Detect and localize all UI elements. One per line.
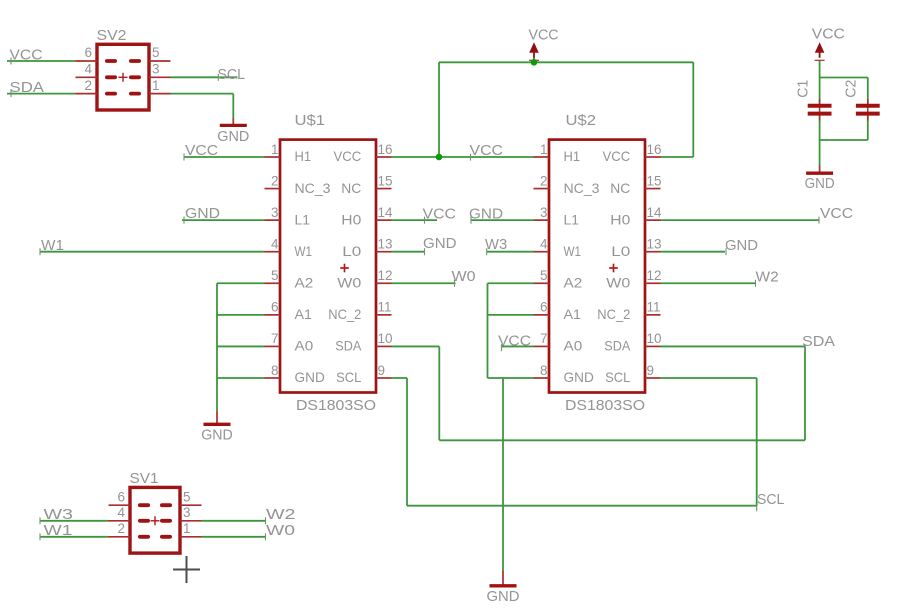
svg-text:U$1: U$1	[295, 112, 326, 129]
svg-text:H1: H1	[295, 148, 312, 164]
svg-text:1: 1	[540, 142, 548, 157]
svg-text:GND: GND	[201, 426, 233, 443]
svg-text:16: 16	[378, 142, 393, 157]
svg-text:2: 2	[117, 521, 125, 536]
svg-text:VCC: VCC	[470, 142, 504, 159]
svg-text:10: 10	[378, 331, 393, 346]
svg-text:SDA: SDA	[802, 333, 835, 350]
svg-text:L1: L1	[295, 211, 311, 227]
svg-text:L1: L1	[564, 211, 580, 227]
svg-text:GND: GND	[487, 588, 520, 605]
svg-text:A0: A0	[295, 338, 314, 354]
svg-text:2: 2	[271, 173, 279, 188]
svg-text:6: 6	[84, 45, 92, 60]
svg-text:A1: A1	[295, 306, 313, 322]
svg-text:10: 10	[647, 331, 662, 346]
svg-text:8: 8	[540, 363, 548, 378]
svg-text:3: 3	[152, 62, 160, 77]
svg-text:H0: H0	[610, 211, 630, 227]
svg-text:GND: GND	[725, 237, 758, 254]
svg-text:6: 6	[117, 489, 125, 504]
svg-text:NC: NC	[610, 180, 630, 196]
svg-text:W1: W1	[41, 237, 64, 254]
svg-text:VCC: VCC	[820, 205, 853, 222]
svg-text:NC_2: NC_2	[328, 306, 361, 322]
svg-text:3: 3	[271, 205, 279, 220]
svg-text:U$2: U$2	[566, 112, 597, 129]
svg-text:5: 5	[271, 268, 279, 283]
svg-text:A2: A2	[295, 274, 314, 290]
svg-text:DS1803SO: DS1803SO	[296, 397, 376, 414]
svg-text:8: 8	[271, 363, 279, 378]
svg-text:W1: W1	[564, 243, 582, 259]
svg-text:GND: GND	[295, 369, 325, 385]
svg-text:SDA: SDA	[335, 338, 362, 354]
svg-text:15: 15	[378, 173, 393, 188]
svg-text:5: 5	[540, 268, 548, 283]
svg-text:9: 9	[647, 363, 655, 378]
svg-text:11: 11	[647, 300, 661, 315]
svg-text:7: 7	[271, 331, 279, 346]
svg-text:9: 9	[378, 363, 386, 378]
svg-text:4: 4	[540, 237, 548, 252]
svg-text:C2: C2	[843, 80, 860, 98]
svg-text:W2: W2	[266, 506, 296, 523]
svg-text:NC_3: NC_3	[564, 180, 600, 196]
svg-text:3: 3	[540, 205, 548, 220]
svg-text:VCC: VCC	[10, 47, 43, 64]
svg-text:SDA: SDA	[604, 338, 631, 354]
svg-text:W0: W0	[266, 522, 295, 539]
svg-text:VCC: VCC	[423, 205, 457, 222]
svg-text:2: 2	[540, 173, 548, 188]
svg-text:A2: A2	[564, 274, 583, 290]
svg-text:SV1: SV1	[130, 470, 159, 487]
svg-text:W0: W0	[337, 274, 361, 290]
svg-text:13: 13	[647, 237, 662, 252]
svg-text:GND: GND	[805, 175, 835, 192]
svg-text:A1: A1	[564, 306, 582, 322]
svg-text:6: 6	[271, 300, 279, 315]
svg-text:L0: L0	[342, 243, 361, 259]
svg-text:A0: A0	[564, 338, 583, 354]
svg-text:NC_3: NC_3	[295, 180, 331, 196]
svg-text:L0: L0	[611, 243, 630, 259]
svg-text:H0: H0	[341, 211, 361, 227]
svg-text:15: 15	[647, 173, 662, 188]
svg-text:4: 4	[84, 62, 92, 77]
svg-text:H1: H1	[564, 148, 581, 164]
svg-text:6: 6	[540, 300, 548, 315]
svg-text:W0: W0	[606, 274, 630, 290]
svg-text:W2: W2	[756, 268, 779, 285]
svg-text:GND: GND	[423, 235, 457, 252]
svg-text:GND: GND	[217, 128, 249, 145]
svg-text:11: 11	[378, 300, 392, 315]
svg-text:4: 4	[117, 505, 125, 520]
svg-text:SV2: SV2	[97, 27, 127, 44]
svg-text:W1: W1	[44, 522, 73, 539]
svg-text:VCC: VCC	[603, 148, 631, 164]
svg-text:2: 2	[84, 78, 92, 93]
svg-text:GND: GND	[185, 205, 220, 222]
svg-text:4: 4	[271, 237, 279, 252]
svg-text:NC_2: NC_2	[597, 306, 630, 322]
svg-text:SDA: SDA	[10, 79, 45, 96]
svg-text:W1: W1	[295, 243, 313, 259]
svg-text:SCL: SCL	[605, 369, 630, 385]
svg-text:VCC: VCC	[498, 332, 531, 349]
svg-text:1: 1	[183, 521, 191, 536]
svg-text:14: 14	[378, 205, 394, 220]
svg-text:7: 7	[540, 331, 548, 346]
svg-text:12: 12	[647, 268, 662, 283]
svg-text:5: 5	[183, 489, 191, 504]
svg-text:GND: GND	[469, 206, 503, 223]
svg-text:1: 1	[271, 142, 279, 157]
svg-text:GND: GND	[564, 369, 594, 385]
svg-text:W3: W3	[44, 506, 74, 523]
svg-text:C1: C1	[795, 80, 812, 98]
svg-text:SCL: SCL	[757, 491, 784, 508]
svg-text:3: 3	[183, 505, 191, 520]
svg-text:14: 14	[647, 205, 663, 220]
svg-text:SCL: SCL	[218, 66, 246, 83]
svg-text:13: 13	[378, 237, 393, 252]
svg-text:VCC: VCC	[185, 142, 218, 159]
svg-text:VCC: VCC	[334, 148, 362, 164]
svg-text:5: 5	[152, 45, 160, 60]
svg-text:NC: NC	[341, 180, 361, 196]
svg-text:W3: W3	[485, 236, 507, 253]
svg-text:16: 16	[647, 142, 662, 157]
svg-text:VCC: VCC	[812, 26, 845, 43]
svg-text:DS1803SO: DS1803SO	[565, 397, 645, 414]
svg-text:SCL: SCL	[336, 369, 361, 385]
svg-text:VCC: VCC	[529, 26, 559, 43]
svg-text:1: 1	[152, 78, 160, 93]
svg-text:W0: W0	[452, 268, 476, 285]
svg-text:12: 12	[378, 268, 393, 283]
